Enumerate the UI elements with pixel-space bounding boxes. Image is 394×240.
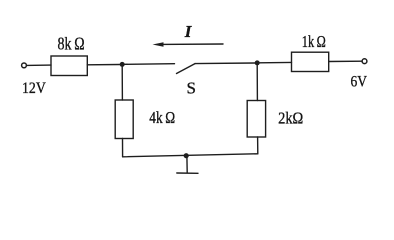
svg-text:S: S [187,78,196,97]
resistor R4 2kOhm (vertical box) [247,101,265,138]
wire R1 to node A [87,64,120,66]
svg-text:8k Ω: 8k Ω [58,34,85,54]
switch S (open blade) [177,64,196,74]
terminal T2 (6V output, open circle) [362,59,367,64]
svg-text:2kΩ: 2kΩ [278,109,303,128]
wire node A to switch left contact [125,63,175,66]
svg-text:I: I [184,22,193,41]
wire node A down to R3 [121,67,123,101]
node B (junction dot) [255,60,260,65]
resistor R1 8kOhm (box) [51,56,87,76]
wire R4 down to bottom rail [257,137,259,154]
terminal T1 (12V input, open circle) [22,63,27,68]
svg-text:6V: 6V [351,74,368,91]
wire R2 to terminal T2 [329,60,362,62]
wire node B down to R4 [256,65,258,101]
node G (junction dot on bottom rail) [184,153,189,158]
svg-text:4k Ω: 4k Ω [149,108,175,127]
resistor R3 4kOhm (vertical box) [115,100,133,139]
wire bottom rail [123,154,258,157]
wire T1 to R1 [27,64,51,66]
node A (junction dot) [120,62,125,67]
svg-text:12V: 12V [22,80,46,97]
current arrow I (pointing left) [153,42,224,46]
wire node B to R2 [260,61,292,63]
svg-text:1k Ω: 1k Ω [302,32,326,51]
resistor R2 1kOhm (box) [292,52,329,71]
wire switch to node B [195,62,255,65]
ground [177,156,198,173]
wire R3 down to bottom rail [122,139,124,157]
